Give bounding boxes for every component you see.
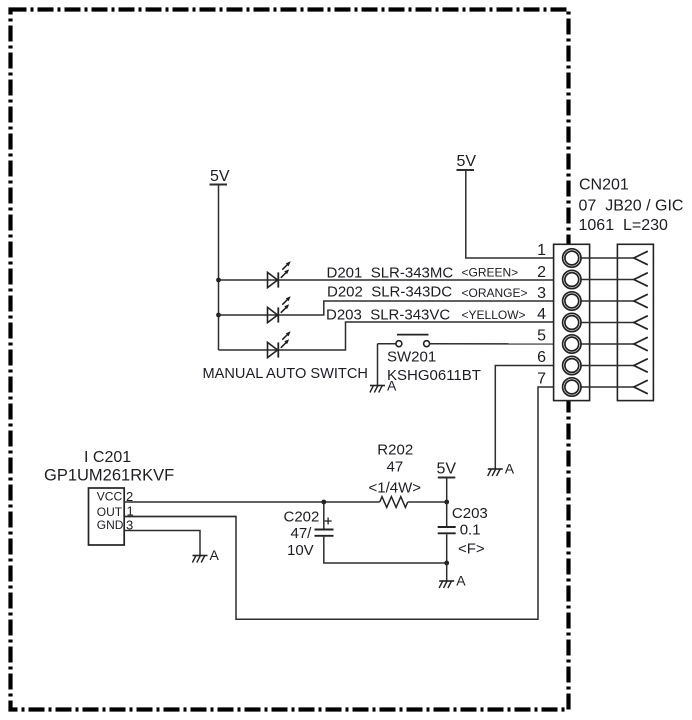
svg-text:5V: 5V [437, 461, 457, 478]
wire: switch to pin 5 [430, 343, 563, 345]
ground A (switch) [370, 378, 397, 394]
wire: D203 row with step up to pin 4 [219, 322, 563, 350]
connector CN201 body [554, 244, 590, 400]
ground A (pin 6) [488, 461, 515, 477]
wire: 5V middle down [446, 478, 448, 503]
svg-text:OUT: OUT [97, 505, 123, 519]
svg-text:47/: 47/ [291, 525, 313, 542]
svg-text:47: 47 [387, 459, 404, 476]
power 5V (middle) [437, 461, 457, 478]
svg-text:D203 SLR-343VC: D203 SLR-343VC [326, 307, 450, 324]
svg-text:D202 SLR-343DC: D202 SLR-343DC [327, 284, 452, 301]
power 5V (right) [457, 153, 477, 170]
svg-text:3: 3 [537, 285, 546, 302]
svg-text:C202: C202 [284, 509, 320, 526]
svg-text:A: A [387, 378, 397, 394]
svg-text:2: 2 [537, 264, 546, 281]
ground A (IC201) [192, 547, 219, 563]
wire: pin 6 to ground [495, 366, 563, 470]
svg-text:5V: 5V [210, 168, 230, 185]
svg-text:A: A [456, 573, 466, 589]
switch SW201 [378, 335, 430, 347]
svg-text:KSHG0611BT: KSHG0611BT [387, 367, 481, 384]
pin 6 [537, 349, 648, 375]
svg-text:<GREEN>: <GREEN> [462, 266, 519, 280]
svg-text:10V: 10V [287, 542, 314, 559]
pin 5 [537, 328, 648, 354]
svg-text:7: 7 [537, 371, 546, 388]
wire: junction to ground [446, 563, 448, 581]
svg-text:VCC: VCC [97, 489, 123, 503]
svg-text:0.1: 0.1 [460, 522, 481, 539]
wire: switch left terminal down to ground [377, 344, 379, 386]
svg-text:1061 L=230: 1061 L=230 [579, 217, 669, 234]
svg-text:<YELLOW>: <YELLOW> [462, 308, 526, 322]
LED D203 [268, 331, 291, 357]
svg-text:<F>: <F> [458, 541, 485, 558]
wire: VCC rail to resistor [124, 501, 380, 503]
wire: OUT to loop [124, 516, 236, 518]
svg-text:<ORANGE>: <ORANGE> [462, 286, 528, 300]
svg-text:5V: 5V [457, 153, 477, 170]
svg-text:GP1UM261RKVF: GP1UM261RKVF [44, 467, 174, 485]
svg-text:07 JB20 / GIC: 07 JB20 / GIC [579, 198, 684, 215]
LED D202 [268, 296, 291, 322]
svg-text:4: 4 [537, 306, 546, 323]
svg-text:SW201: SW201 [387, 349, 436, 366]
ground A (C203) [439, 573, 466, 589]
pin 4 [537, 306, 648, 332]
pin 7 [537, 371, 648, 397]
node junction trunk/D202 [216, 313, 221, 318]
svg-text:<1/4W>: <1/4W> [369, 480, 422, 497]
wire: pin 7 loop to IC OUT [124, 387, 563, 619]
pin 2 [537, 264, 648, 289]
connector CN201 mating side [617, 244, 653, 400]
wire: resistor to 5V junction [408, 501, 447, 503]
svg-text:6: 6 [537, 349, 546, 366]
wire: 5V left trunk down [218, 185, 220, 351]
svg-text:I C201: I C201 [84, 449, 131, 466]
svg-text:5: 5 [537, 328, 546, 345]
svg-text:CN201: CN201 [579, 177, 629, 194]
capacitor C203 [438, 502, 456, 563]
wire: 5V right to pin 1 [466, 170, 563, 258]
dash-dot border frame [11, 10, 569, 710]
svg-text:MANUAL AUTO SWITCH: MANUAL AUTO SWITCH [203, 366, 368, 382]
wire: C202 bottom rail [324, 537, 447, 563]
svg-text:A: A [210, 547, 220, 563]
wire: GND down to ground [124, 531, 200, 556]
svg-text:GND: GND [97, 518, 124, 532]
node junction R202/C203/5V [444, 500, 449, 505]
op-amp U1 : IC201 box [89, 488, 125, 545]
node junction bottom rail [444, 561, 449, 566]
power 5V (left) [210, 168, 230, 185]
node junction trunk/D201 [216, 278, 221, 283]
pin 1 [537, 242, 648, 267]
LED D201 [268, 261, 291, 287]
svg-text:C203: C203 [452, 505, 488, 522]
capacitor C202 [315, 502, 334, 536]
svg-text:1: 1 [537, 242, 546, 259]
svg-text:A: A [505, 461, 515, 477]
svg-text:R202: R202 [377, 442, 413, 459]
wire: D201 row to pin 2 [219, 279, 563, 281]
wire: D202 row with step up to pin 3 [219, 301, 563, 315]
svg-text:D201 SLR-343MC: D201 SLR-343MC [327, 265, 454, 282]
resistor R202 [380, 497, 408, 508]
node junction C202 tap [321, 500, 326, 505]
pin 3 [537, 285, 648, 310]
